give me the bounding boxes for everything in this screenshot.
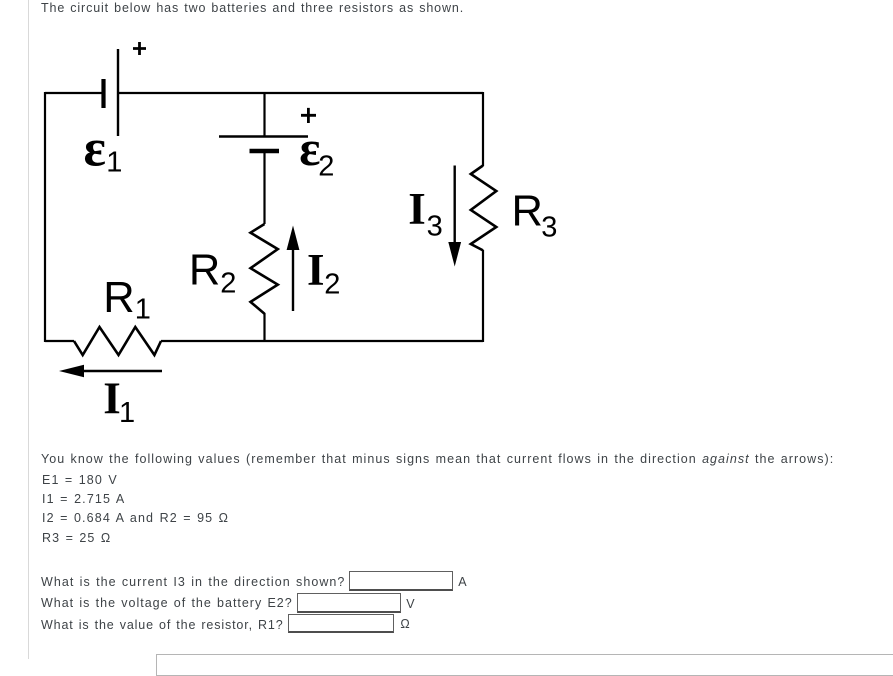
wire: top segment from battery E1 to top-right corner [119, 92, 483, 94]
label epsilon2 [299, 121, 334, 183]
label R1 [103, 274, 151, 326]
resistor R3 [471, 166, 497, 251]
answer input R1 [288, 614, 393, 634]
svg-text:3: 3 [541, 212, 557, 244]
title text [41, 1, 464, 16]
wire: right side upper segment [482, 92, 484, 166]
plus sign of battery E1 [133, 42, 146, 55]
label I2 [307, 245, 340, 300]
question 2 [41, 596, 293, 611]
wire: middle branch between E2 and R2 [263, 151, 265, 224]
svg-text:ε: ε [84, 120, 106, 178]
svg-text:3: 3 [427, 211, 443, 243]
values paragraph [41, 452, 834, 467]
question 1 [41, 575, 345, 590]
svg-text:I: I [307, 245, 325, 295]
svg-text:2: 2 [318, 150, 334, 182]
battery E1 negative plate (short thick) [101, 79, 105, 108]
battery E2 positive plate (long thin) [219, 135, 308, 137]
question 3 [41, 618, 284, 633]
wire: left side [44, 92, 46, 342]
label I1 [103, 374, 135, 429]
wire: top-left segment from left corner to battery E1 [45, 92, 102, 94]
plus sign of battery E2 [301, 108, 316, 123]
answer input E2 [297, 593, 402, 613]
circuit schematic [0, 0, 893, 480]
svg-text:R: R [189, 246, 220, 294]
next content box (partial, bottom) [156, 654, 893, 676]
battery E1 positive plate (long thin) [117, 49, 119, 136]
svg-text:1: 1 [119, 397, 135, 429]
battery E2 negative plate (short thick) [250, 149, 280, 154]
svg-text:R: R [512, 188, 543, 236]
wire: right side lower segment [482, 250, 484, 342]
wire: bottom-left segment to resistor R1 [45, 340, 74, 342]
left page rule [28, 0, 29, 659]
resistor R1 [74, 327, 161, 355]
label I3 [408, 184, 442, 243]
svg-text:2: 2 [220, 268, 236, 300]
current arrow I3 [448, 166, 461, 267]
svg-text:1: 1 [135, 294, 151, 326]
label R3 [512, 188, 558, 244]
svg-text:I: I [408, 184, 426, 234]
label R2 [189, 246, 237, 299]
svg-text:2: 2 [324, 268, 340, 300]
svg-text:ε: ε [299, 121, 320, 176]
wire: middle branch lower (R2 to bottom wire) [263, 313, 265, 342]
svg-text:1: 1 [106, 147, 122, 179]
svg-text:R: R [103, 274, 134, 322]
current arrow I2 [287, 226, 300, 312]
label epsilon1 [84, 120, 123, 179]
answer input I3 [349, 571, 454, 591]
resistor R2 [251, 224, 278, 314]
current arrow I1 [59, 365, 162, 377]
wire: bottom segment from R1 to bottom-right corner [161, 340, 483, 342]
wire: middle branch upper (to battery E2) [263, 93, 265, 136]
